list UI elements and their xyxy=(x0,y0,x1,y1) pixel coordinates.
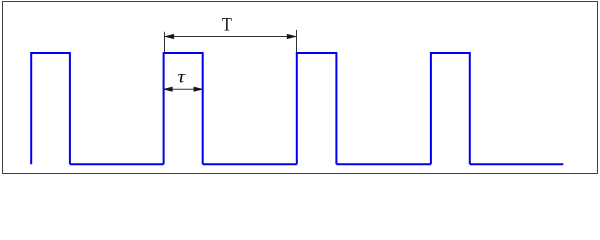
wire: baseline segment 1 xyxy=(70,163,164,165)
arrowhead left of tau dimension xyxy=(164,87,173,91)
wire: baseline segment 2 xyxy=(203,163,297,165)
pulse 1 of waveform xyxy=(31,53,70,164)
dimension line for period T xyxy=(165,36,296,38)
wire: baseline segment 3 xyxy=(336,163,431,165)
arrowhead left of T dimension xyxy=(165,34,174,38)
dimension line for pulse width tau xyxy=(165,88,203,90)
extension line at rising edge of pulse 2 xyxy=(164,32,166,53)
pulse 4 of waveform xyxy=(431,53,470,164)
pulse 2 of waveform xyxy=(164,53,203,164)
arrowhead right of tau dimension xyxy=(194,87,203,91)
wire: baseline segment 4 xyxy=(470,163,564,165)
extension line at rising edge of pulse 3 xyxy=(296,30,298,52)
svg-text:τ: τ xyxy=(177,68,186,87)
arrowhead right of T dimension xyxy=(287,34,296,38)
pulse 3 of waveform xyxy=(297,53,337,164)
svg-text:T: T xyxy=(222,13,232,34)
